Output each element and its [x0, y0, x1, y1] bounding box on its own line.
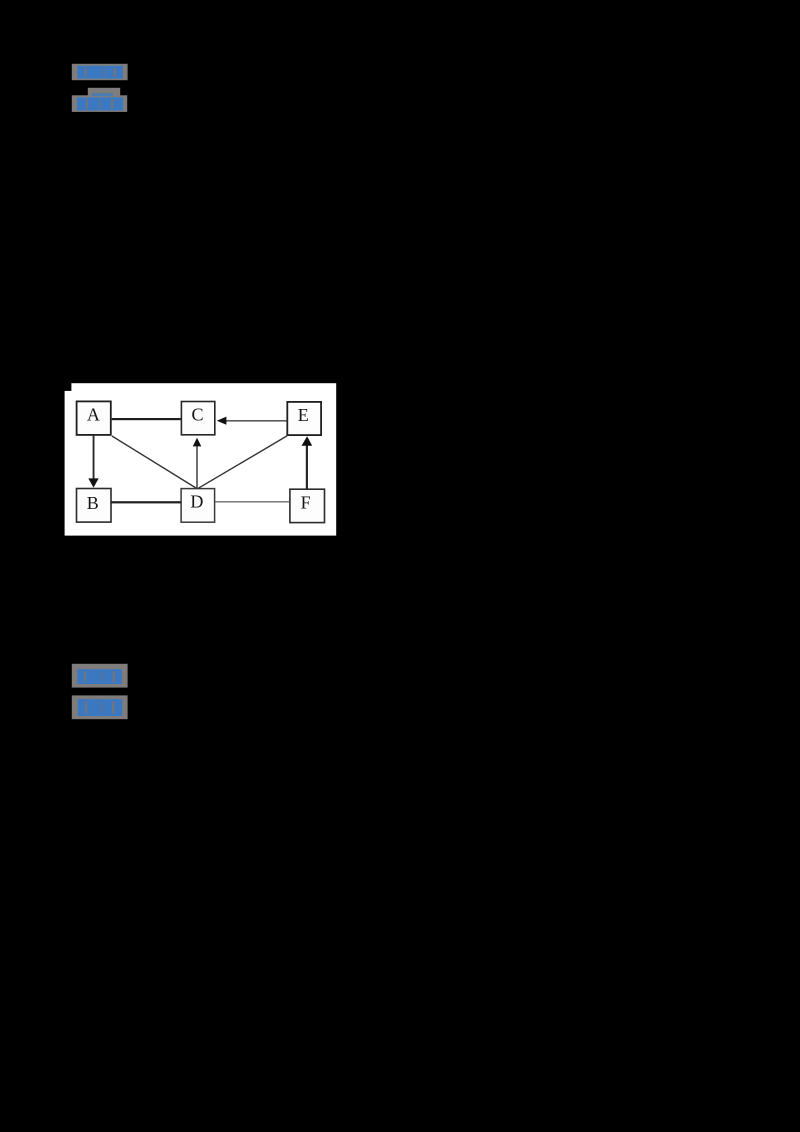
edge D-C (arrow up into C)	[193, 438, 202, 489]
node F	[290, 489, 325, 522]
node C	[181, 402, 214, 435]
svg-text:B: B	[87, 493, 99, 513]
node A	[77, 401, 111, 435]
edge A-C (thick line)	[112, 418, 181, 420]
svg-text:A: A	[87, 404, 100, 424]
edge E-C (arrow into C)	[217, 417, 288, 425]
svg-text:D: D	[190, 492, 203, 512]
svg-text:F: F	[301, 492, 311, 512]
tag block 1 (gray highlight)	[72, 64, 128, 80]
edge A-B (arrow down into B)	[88, 436, 98, 488]
svg-text:C: C	[191, 404, 203, 424]
tag block 4 (gray highlight)	[72, 695, 128, 719]
edge F-E (arrow up into E)	[302, 436, 313, 489]
edge A-D (diagonal)	[112, 436, 197, 488]
tag block 3 (gray highlight)	[72, 664, 128, 688]
edge B-D (thick line)	[111, 501, 181, 503]
tag block 2 (gray highlight with raised cap)	[72, 88, 127, 112]
edge D-E (diagonal)	[198, 436, 287, 488]
svg-text:E: E	[298, 405, 309, 425]
edge D-F (thin line)	[215, 501, 290, 502]
node E	[287, 402, 321, 435]
node B	[77, 489, 112, 523]
node D	[181, 489, 215, 523]
diagram panel (white)	[65, 383, 337, 535]
